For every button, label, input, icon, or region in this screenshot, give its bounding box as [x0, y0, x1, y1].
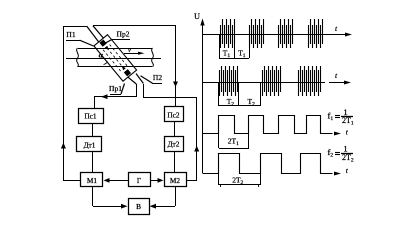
svg-text:Пс2: Пс2	[167, 110, 180, 119]
svg-text:П1: П1	[66, 30, 75, 39]
svg-text:Пр1: Пр1	[109, 84, 122, 93]
svg-text:Дт1: Дт1	[84, 140, 96, 149]
svg-text:М1: М1	[87, 176, 97, 185]
svg-text:П2: П2	[153, 73, 162, 82]
svg-text:U: U	[194, 12, 200, 21]
svg-text:В: В	[136, 202, 141, 211]
svg-text:Г: Г	[137, 176, 141, 185]
svg-text:М2: М2	[170, 176, 180, 185]
svg-text:Дт2: Дт2	[168, 139, 180, 148]
svg-text:Пс1: Пс1	[84, 111, 97, 120]
svg-text:Пр2: Пр2	[117, 30, 130, 39]
